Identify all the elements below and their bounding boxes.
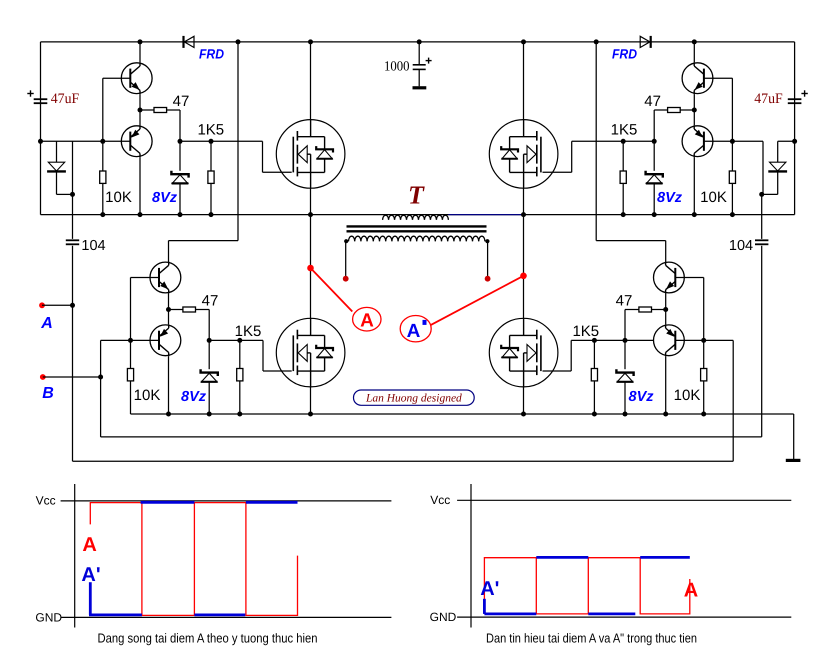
node Q7/Q8 emitters — [663, 307, 668, 312]
wire M4 drain from node A' — [523, 215, 525, 319]
wire M3 source — [310, 387, 312, 414]
node junction driver4 supply drop on +V rail — [594, 39, 599, 44]
diode D1 FRD left — [182, 36, 184, 48]
svg-text:1K5: 1K5 — [235, 323, 262, 340]
wire Q3 base — [131, 277, 160, 279]
wire M2 source — [523, 188, 525, 214]
plot1 blue waveform A' start edge — [89, 582, 92, 615]
node base-net/R4 — [730, 139, 735, 144]
wire Q4 base net — [101, 339, 159, 341]
svg-text:10K: 10K — [674, 387, 701, 404]
svg-text:47: 47 — [616, 293, 633, 310]
zener Z3 8Vz left-bottom — [208, 340, 210, 369]
transistor Q1 NPN — [121, 63, 152, 94]
plot2 blue waveform A' seg1 low — [484, 613, 536, 616]
wire M4 gate drive — [570, 340, 572, 371]
wire Q7 emitter to node — [665, 293, 667, 309]
wire Q4 collector — [168, 356, 170, 414]
transistor Q6 PNP — [682, 126, 713, 157]
svg-text:Lan Huong designed: Lan Huong designed — [365, 393, 462, 405]
wire Q3 emitter to node — [168, 293, 170, 309]
wire Q8 emitter — [665, 310, 667, 325]
wire driver3 supply drop — [237, 42, 239, 241]
wire Q1 base — [103, 77, 131, 79]
node R6 top — [621, 139, 626, 144]
wire node B bottom run — [101, 436, 762, 438]
node junction Q1 collector on +V rail — [138, 39, 143, 44]
wire M4 source — [523, 387, 525, 414]
wire Q5 emitter to node — [693, 94, 695, 110]
node right edge / base-net junction — [792, 139, 797, 144]
svg-text:8Vz: 8Vz — [181, 389, 207, 405]
svg-text:104: 104 — [729, 238, 753, 254]
svg-text:47: 47 — [173, 93, 190, 110]
wire node A bottom run — [73, 460, 734, 462]
node R4 bottom rail — [730, 212, 735, 217]
input A terminal — [39, 302, 45, 308]
svg-text:A: A — [684, 579, 698, 601]
wire M1 gate drive — [262, 141, 264, 172]
node M3 source rail — [308, 412, 313, 417]
node R6 bottom rail — [621, 212, 626, 217]
node junction driver2 supply drop on +V rail — [236, 39, 241, 44]
svg-text:10K: 10K — [134, 387, 161, 404]
svg-text:FRD: FRD — [199, 47, 224, 62]
ground symbol — [786, 459, 801, 462]
svg-text:1K5: 1K5 — [197, 122, 224, 139]
zener Z1 8Vz left-top — [179, 141, 181, 171]
plot1 blue waveform A' seg4 high — [246, 501, 298, 504]
node Q4 collector rail — [166, 412, 171, 417]
resistor R9 1K5 left-bottom — [239, 340, 241, 368]
node Z2 bottom rail — [652, 212, 657, 217]
plot1 Vcc level line — [61, 500, 392, 502]
plot2 GND level line — [457, 616, 791, 618]
wire right edge vertical (47uF branch) — [794, 42, 796, 215]
svg-text:8Vz: 8Vz — [152, 190, 178, 206]
wire A-branch vertical x72 — [72, 141, 74, 239]
svg-text:1K5: 1K5 — [572, 323, 599, 340]
plot1 GND level line — [61, 616, 392, 618]
resistor R12 1K5 right-bottom — [593, 340, 595, 368]
wire red to label A' — [431, 276, 524, 325]
svg-text:A': A' — [480, 578, 499, 600]
node R11 bottom rail — [701, 412, 706, 417]
wire mid rail navy segment — [448, 214, 523, 216]
node Q8 collector rail — [663, 412, 668, 417]
MOSFET M3 — [276, 318, 345, 387]
node zener Z2 top — [652, 139, 657, 144]
input B terminal — [40, 374, 46, 380]
node R1 bottom rail — [100, 212, 105, 217]
plot2 red waveform A — [484, 558, 689, 614]
node Z3 bottom rail — [207, 412, 212, 417]
diode D4 right — [777, 141, 779, 162]
capacitor C3 1000uF — [418, 42, 420, 65]
wire 1K5 net left-top — [180, 140, 263, 142]
node D3 to A-branch — [70, 192, 75, 197]
wire 1K5 net right-bottom — [571, 339, 654, 341]
svg-text:A: A — [360, 311, 374, 332]
svg-text:47: 47 — [202, 293, 219, 310]
svg-text:Vcc: Vcc — [430, 493, 450, 507]
capacitor C5 104 right — [755, 239, 768, 241]
svg-text:Dang song tai diem A theo y tu: Dang song tai diem A theo y tuong thuc h… — [98, 631, 318, 646]
node D4 to B-branch — [759, 192, 764, 197]
transistor Q4 PNP — [150, 325, 181, 356]
node Z4 bottom rail — [623, 412, 628, 417]
wire Q1 emitter to node — [139, 94, 141, 110]
wire left edge vertical (47uF branch) — [40, 42, 42, 215]
plot2 blue waveform A' start edge — [483, 599, 486, 614]
resistor R7 47 left-bottom — [169, 309, 183, 311]
node base-net/R1 — [100, 139, 105, 144]
wire Q2 collector — [139, 157, 141, 215]
wire Q6 collector — [693, 157, 695, 215]
svg-text:47uF: 47uF — [51, 91, 80, 107]
resistor R8 10K left-bottom — [130, 340, 132, 368]
svg-text:A: A — [40, 315, 53, 332]
wire B-branch vertical x762 — [762, 141, 764, 194]
svg-text:10K: 10K — [105, 189, 132, 206]
wire M2 gate drive — [571, 141, 573, 172]
resistor R6 1K5 right-top — [622, 141, 624, 171]
svg-text:Vcc: Vcc — [36, 494, 56, 508]
wire Q6 emitter — [693, 110, 695, 125]
plot2 blue waveform A' seg2 high — [536, 556, 588, 559]
node R3 top — [209, 139, 214, 144]
svg-text:8Vz: 8Vz — [629, 389, 655, 405]
node Q1/Q2 emitters — [138, 108, 143, 113]
resistor R3 1K5 left-top — [210, 141, 212, 171]
plot2 blue waveform A' seg3 low — [588, 613, 635, 616]
node Q5/Q6 emitters — [692, 108, 697, 113]
label node A' circled — [400, 316, 431, 342]
node A-branch input junction — [70, 303, 75, 308]
plot1 blue waveform A' seg2 high — [141, 501, 195, 504]
node output A' (red) — [520, 273, 527, 280]
wire M3 gate drive — [262, 340, 264, 371]
wire top +V rail — [41, 41, 795, 43]
node R9 bottom rail — [237, 412, 242, 417]
transistor Q7 NPN — [654, 262, 685, 293]
node output A (red) — [307, 265, 314, 272]
plot2 blue waveform A' seg4 high — [640, 556, 690, 559]
wire Q1 collector — [139, 42, 141, 62]
svg-text:104: 104 — [81, 238, 105, 254]
wire ground drop — [793, 414, 795, 459]
node M1 source rail — [308, 212, 313, 217]
transformer primary left terminal — [344, 239, 348, 243]
node junction 1000uF cap on +V rail — [417, 39, 422, 44]
node zener Z4 top — [623, 338, 628, 343]
svg-text:1K5: 1K5 — [611, 122, 638, 139]
node zener Z1 top — [178, 139, 183, 144]
wire B to Q3/Q4 bases — [100, 340, 102, 437]
transistor Q3 NPN — [150, 262, 181, 293]
node zener Z3 top — [207, 338, 212, 343]
svg-text:B: B — [42, 385, 54, 402]
node R12 bottom rail — [592, 412, 597, 417]
node junction MOSFET M2 drain on +V rail — [521, 39, 526, 44]
wire Q8 collector — [665, 356, 667, 414]
wire Q3 collector — [168, 261, 170, 263]
node Q2 collector rail — [138, 212, 143, 217]
node Q7 base / Q8 base junction — [701, 338, 706, 343]
resistor R11 10K right-bottom — [703, 340, 705, 368]
MOSFET M2 — [489, 120, 558, 189]
svg-text:1000: 1000 — [384, 60, 410, 75]
diode D2 FRD right — [650, 36, 652, 48]
resistor R5 47 right-top — [680, 109, 694, 111]
wire driver4 supply drop — [595, 42, 597, 241]
transformer T secondary winding — [383, 215, 449, 220]
svg-text:A: A — [82, 534, 96, 556]
transistor Q8 PNP — [654, 325, 685, 356]
svg-text:T: T — [408, 181, 425, 210]
transistor Q2 PNP — [121, 126, 152, 157]
wire red to label A — [311, 268, 353, 312]
wire Q2 emitter — [139, 110, 141, 125]
transformer primary right terminal — [485, 239, 489, 243]
svg-text:FRD: FRD — [612, 47, 637, 62]
transformer T core — [347, 225, 487, 227]
svg-text:8Vz: 8Vz — [657, 190, 683, 206]
wire 1K5 net left-bottom — [209, 339, 263, 341]
node M4 source rail — [521, 412, 526, 417]
node R9 top — [237, 338, 242, 343]
node Z1 bottom rail — [178, 212, 183, 217]
wire Q8 base net — [675, 339, 733, 341]
wire Q5 base — [704, 77, 733, 79]
plot1 axis vertical — [74, 484, 76, 628]
wire A to Q7/Q8 bases — [732, 340, 734, 461]
wire Q7 base — [675, 277, 703, 279]
plot1 blue waveform A' seg3 low — [194, 614, 245, 617]
wire 1K5 net right-top — [572, 140, 655, 142]
ground C3 — [413, 86, 427, 89]
wire M1 drain — [310, 42, 312, 120]
capacitor C2 47uF right — [788, 98, 802, 100]
resistor R10 47 right-bottom — [652, 309, 666, 311]
svg-text:47: 47 — [644, 93, 661, 110]
svg-text:A': A' — [81, 564, 100, 586]
node R12 top — [592, 338, 597, 343]
plot2 Vcc level line — [457, 499, 791, 501]
plot1 blue waveform A' seg1 low — [89, 614, 142, 617]
wire Q5 collector — [693, 42, 695, 62]
wire second row ground rail — [131, 413, 794, 415]
capacitor C4 104 left — [66, 239, 79, 241]
node junction MOSFET M1 drain on +V rail — [308, 39, 313, 44]
resistor R2 47 left-top — [140, 109, 154, 111]
svg-text:GND: GND — [430, 610, 457, 624]
MOSFET M1 — [276, 120, 345, 189]
svg-text:10K: 10K — [700, 189, 727, 206]
MOSFET M4 — [489, 318, 558, 387]
node B-branch input junction — [98, 375, 103, 380]
plot1 red waveform A — [90, 503, 297, 616]
node junction Q5 collector on +V rail — [692, 39, 697, 44]
node left edge / base-net junction — [38, 139, 43, 144]
svg-text:47uF: 47uF — [754, 91, 783, 107]
plot2 axis vertical — [470, 484, 472, 628]
transformer T primary winding — [349, 236, 485, 241]
wire M1 source — [310, 188, 312, 214]
label Lan Huong designed — [354, 390, 475, 405]
zener Z2 8Vz right-top — [653, 141, 655, 171]
diode D3 left — [56, 141, 58, 162]
capacitor C1 47uF left — [34, 98, 48, 100]
wire M3 drain from node A — [310, 215, 312, 319]
resistor R1 10K left-top — [102, 141, 104, 171]
wire base net left (Vcc side) — [41, 140, 131, 142]
node Q6 collector rail — [692, 212, 697, 217]
svg-text:Dan tin hieu tai diem A va A": Dan tin hieu tai diem A va A" trong thuc… — [486, 631, 697, 646]
node Q3 base / Q4 base junction — [128, 338, 133, 343]
node M2 source rail — [521, 212, 526, 217]
node Q3/Q4 emitters — [166, 307, 171, 312]
node R3 bottom rail — [209, 212, 214, 217]
svg-text:A: A — [407, 321, 421, 342]
zener Z4 8Vz right-bottom — [624, 340, 626, 369]
label node A circled — [353, 307, 381, 331]
wire M2 drain — [523, 42, 525, 120]
wire mid horizontal rail — [41, 214, 795, 216]
svg-text:GND: GND — [35, 611, 62, 625]
wire base net right (Vcc side) — [704, 140, 763, 142]
resistor R4 10K right-top — [731, 141, 733, 171]
wire Q4 emitter — [168, 310, 170, 325]
transistor Q5 NPN — [682, 63, 713, 94]
